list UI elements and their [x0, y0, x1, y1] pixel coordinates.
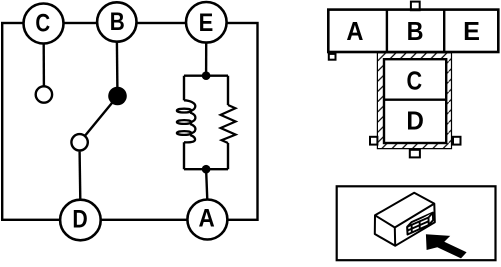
relay body (isometric box)	[375, 193, 435, 246]
svg-text:C: C	[35, 9, 50, 37]
contact circle (D throw)	[71, 134, 87, 150]
divider A/B	[386, 10, 388, 52]
wire parallel branch frame	[184, 76, 228, 170]
svg-text:A: A	[346, 18, 363, 46]
legend box frame	[337, 186, 496, 260]
terminal E	[186, 2, 227, 43]
terminal D	[60, 200, 101, 241]
legend box	[337, 186, 496, 260]
contact circle (C throw)	[36, 86, 52, 102]
relay connector block	[407, 213, 433, 235]
svg-text:B: B	[407, 18, 424, 46]
inner C/D box	[384, 59, 446, 143]
svg-text:C: C	[406, 68, 422, 96]
svg-text:D: D	[406, 107, 423, 136]
node junction dot bottom	[202, 165, 211, 174]
wire contact to D	[78, 152, 81, 200]
svg-text:E: E	[199, 9, 214, 37]
lower-left tab	[329, 54, 336, 60]
divider B/E	[443, 10, 445, 52]
svg-text:B: B	[110, 7, 125, 35]
wire B to pivot	[116, 42, 119, 90]
terminal B	[97, 2, 136, 41]
left tab	[370, 137, 377, 145]
terminal C	[24, 4, 64, 44]
svg-text:A: A	[198, 205, 214, 233]
right tab	[453, 137, 461, 145]
wire C to contact	[43, 44, 46, 86]
top index tab	[411, 2, 420, 11]
switch pivot dot (B)	[108, 87, 127, 106]
switch arm	[82, 96, 118, 140]
coil L1	[177, 100, 196, 142]
svg-text:D: D	[72, 205, 87, 233]
svg-text:E: E	[463, 18, 480, 46]
arrow	[426, 234, 467, 258]
relay internal schematic	[2, 2, 257, 240]
wire E to node	[205, 43, 207, 76]
wire outer boundary rectangle	[2, 23, 257, 220]
terminal A	[187, 200, 227, 240]
connector pinout view	[328, 2, 498, 158]
wire node to A	[206, 169, 207, 200]
hatched frame	[377, 53, 451, 149]
node junction dot top	[202, 71, 211, 80]
pin row outline	[328, 10, 498, 52]
resistor R1	[221, 105, 236, 143]
bottom tab	[410, 150, 420, 158]
divider C/D	[384, 98, 446, 100]
